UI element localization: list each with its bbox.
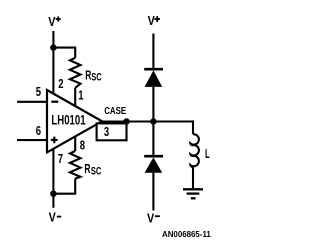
node junction dot at V+ left (50, 44, 57, 51)
svg-text:V: V (49, 209, 56, 224)
label RSC bottom value (84, 161, 101, 178)
node case box pin 3 (97, 123, 127, 140)
wire from V+ junction to top RSC (53, 48, 75, 58)
svg-text:SC: SC (91, 166, 101, 178)
label RSC top value (85, 68, 102, 84)
svg-text:CASE: CASE (104, 106, 126, 117)
wire V+ left vertical to op-amp pin 2 (52, 31, 54, 94)
svg-text:1: 1 (78, 88, 83, 103)
diode D1 to V+ (144, 69, 163, 87)
svg-text:V: V (147, 211, 154, 226)
wire pin 7 from op-amp to V- junction (52, 148, 54, 208)
wire input pin 5 (17, 101, 48, 103)
svg-text:R: R (84, 161, 90, 176)
op-amp non-inverting input plus sign (51, 137, 58, 144)
wire pin 1 from RSC top to op-amp (74, 88, 76, 107)
wire bottom RSC to V- junction (53, 179, 75, 194)
svg-text:6: 6 (36, 123, 41, 138)
diode D2 to V- (144, 156, 163, 173)
wire inductor to ground (192, 167, 194, 189)
resistor RSC bottom zigzag (70, 151, 81, 179)
wire diode D2 to V- (152, 173, 154, 211)
inductor L coil (190, 134, 198, 167)
wire op-amp output node line (101, 120, 193, 122)
svg-text:3: 3 (104, 124, 109, 139)
node V+ right label (148, 13, 160, 28)
svg-text:7: 7 (58, 151, 63, 166)
node junction dot diode column (150, 118, 157, 125)
svg-text:V: V (48, 14, 55, 29)
wire diode D1 to node and node to diode D2 (152, 87, 154, 155)
node junction dot at V- left (50, 190, 57, 197)
svg-text:LH0101: LH0101 (51, 112, 86, 127)
svg-text:AN006865-11: AN006865-11 (162, 229, 211, 239)
svg-text:8: 8 (80, 138, 85, 153)
svg-text:V: V (148, 13, 155, 28)
wire V+ right to diode D1 (152, 34, 154, 70)
wire pin 8 from op-amp to bottom RSC (74, 136, 76, 151)
node V+ left label (48, 14, 61, 29)
ground symbol (183, 189, 203, 198)
svg-text:SC: SC (91, 72, 101, 84)
op-amp inverting input minus sign (51, 101, 58, 103)
node V- right label (147, 211, 160, 226)
node junction dot case box (123, 118, 130, 125)
svg-text:L: L (205, 147, 210, 161)
resistor RSC top zigzag (70, 58, 81, 88)
op-amp U1 LH0101 triangle (47, 90, 102, 152)
wire node to inductor (192, 120, 194, 134)
svg-text:5: 5 (36, 84, 41, 99)
svg-text:2: 2 (58, 76, 63, 91)
node V- left label (49, 209, 62, 224)
wire input pin 6 (17, 139, 48, 141)
